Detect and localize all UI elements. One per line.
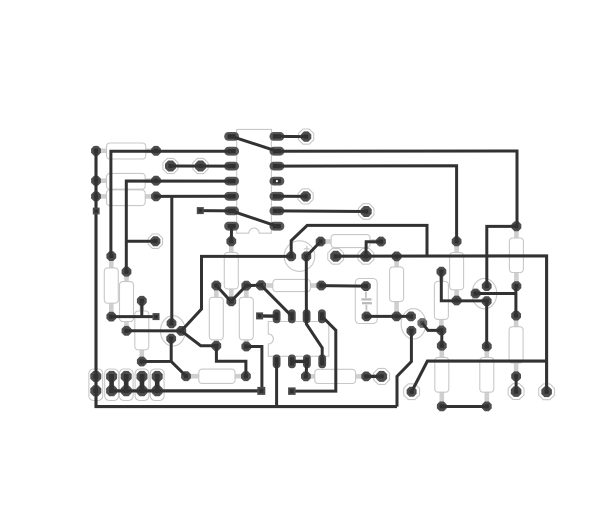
via V6 xyxy=(148,234,162,248)
resistor R9 xyxy=(120,267,134,336)
transistor Q1 xyxy=(161,316,187,346)
wire pin2R long run xyxy=(277,151,517,226)
terminal S3 xyxy=(153,313,160,320)
wire pin5R to via V4 xyxy=(277,195,306,198)
terminal S6 xyxy=(288,387,296,395)
wire Q2 collector down xyxy=(397,331,411,407)
wire R10 stub xyxy=(140,301,143,317)
resistor R13 xyxy=(239,281,253,352)
wire R13 to terminal xyxy=(246,347,262,391)
resistor R7 xyxy=(256,279,326,291)
wire header bus xyxy=(112,389,262,392)
wire Q1 base run xyxy=(181,331,246,376)
wire bus segment right xyxy=(442,405,487,408)
wire R17-R18 link xyxy=(514,286,517,316)
wire net1 main xyxy=(127,256,292,331)
via V3 xyxy=(299,129,314,144)
wire R4 elbow to via V8 xyxy=(366,242,381,256)
wire R15 top to Q3 xyxy=(441,272,486,301)
resistor R12 xyxy=(209,281,223,351)
wire to Q3 top xyxy=(487,226,517,286)
resistor R1 xyxy=(91,143,161,159)
wire relay bar xyxy=(292,360,307,363)
resistor R10 xyxy=(135,296,149,367)
relay RL1 (8-pad package) xyxy=(268,309,329,368)
wire R12-R11-R13 vee xyxy=(216,285,261,301)
transistor Q2 xyxy=(401,309,427,339)
wire terminal to pin6L xyxy=(200,209,231,212)
terminal S5 xyxy=(257,387,265,395)
wire Q3 left run xyxy=(476,292,516,295)
junction square S1 xyxy=(93,208,100,215)
wire pin6L-pin7R diagonal xyxy=(232,211,277,226)
resistor R6 xyxy=(301,369,371,383)
wire header col4 xyxy=(140,377,145,391)
wire relay pad1 to bus xyxy=(275,361,278,406)
resistor R19 xyxy=(435,341,449,412)
via V4 xyxy=(298,189,313,204)
wire pin1L-pin2R diagonal xyxy=(232,136,277,151)
wire R15 link xyxy=(440,330,443,345)
resistor R17 xyxy=(509,221,523,291)
wire Q1 emitter run xyxy=(142,339,172,362)
wire header col3 xyxy=(124,377,129,391)
wire node A to relay pad xyxy=(261,285,292,316)
resistor R11 xyxy=(224,236,238,306)
wire pin3R to R16 xyxy=(277,166,457,242)
node A xyxy=(256,280,266,290)
resistor R20 xyxy=(480,342,494,412)
wire C2 to R4 xyxy=(306,241,320,256)
transistor Q3 xyxy=(471,278,497,308)
resistor R3 xyxy=(91,190,161,206)
via V7 xyxy=(328,248,344,264)
terminal S4 xyxy=(256,312,263,319)
wire header col5 xyxy=(155,377,160,391)
op-amp U1 (14-pin DIP) xyxy=(224,129,284,233)
wire R7 to C1 xyxy=(321,284,366,288)
via V10 xyxy=(404,384,420,400)
wire pin7L to R11 xyxy=(230,226,233,241)
wire Q2 base link xyxy=(422,323,442,330)
resistor R8 xyxy=(104,251,118,321)
via V11 xyxy=(508,384,524,400)
wire net2 lower arm xyxy=(412,361,547,392)
via V5 xyxy=(358,204,374,220)
wire pin2L bus xyxy=(111,151,232,256)
wire header col2 xyxy=(109,377,114,391)
resistor R14 xyxy=(390,252,404,322)
wire relay pad4 to gnd sq xyxy=(292,316,336,391)
wire R8 to terminal xyxy=(111,315,156,318)
terminal S2 xyxy=(197,207,204,214)
resistor R5 xyxy=(181,369,251,383)
wire C1 to Q2 row xyxy=(367,315,412,318)
wire branch to R5 xyxy=(171,361,186,376)
via V1 xyxy=(163,158,178,173)
via V8 xyxy=(358,248,374,264)
wire R3 to pin5L xyxy=(156,195,232,198)
wire C2 elbow long xyxy=(291,225,427,256)
wire Q3 down xyxy=(485,301,488,346)
via V2 xyxy=(193,158,208,173)
connector J1 (2x5 header) xyxy=(89,369,164,401)
wire C2 to relay diagonal xyxy=(306,256,322,361)
via V9 xyxy=(374,368,390,384)
via V12 xyxy=(539,384,555,400)
wire vertical to Q1 xyxy=(170,196,173,323)
wire pin6R to via V5 xyxy=(277,209,366,213)
resistor R15 xyxy=(434,267,448,336)
wire ground bus xyxy=(96,151,397,407)
wire pin4L bus xyxy=(126,181,231,272)
wire branch to via V6 xyxy=(126,240,155,243)
wire relay stub xyxy=(305,361,309,376)
wire R6 to via V9 xyxy=(366,375,381,379)
wire R18 to via V11 xyxy=(515,376,518,391)
resistor R18 xyxy=(509,311,523,382)
wire pin1R to via V3 xyxy=(277,135,306,138)
resistor R4 xyxy=(316,235,386,248)
capacitor C1 xyxy=(355,279,377,324)
capacitor C2 (electrolytic) xyxy=(284,241,315,272)
resistor R16 xyxy=(450,237,464,306)
wire net2 top xyxy=(336,256,547,392)
wire via V1-V2 to pin3L xyxy=(171,165,232,168)
resistor R2 xyxy=(91,173,161,189)
wire terminal to relay pad1 xyxy=(260,314,277,318)
